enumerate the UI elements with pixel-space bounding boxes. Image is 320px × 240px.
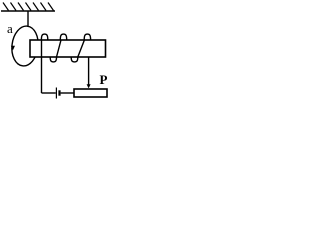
svg-text:P: P: [100, 72, 108, 87]
svg-text:a: a: [7, 21, 13, 36]
